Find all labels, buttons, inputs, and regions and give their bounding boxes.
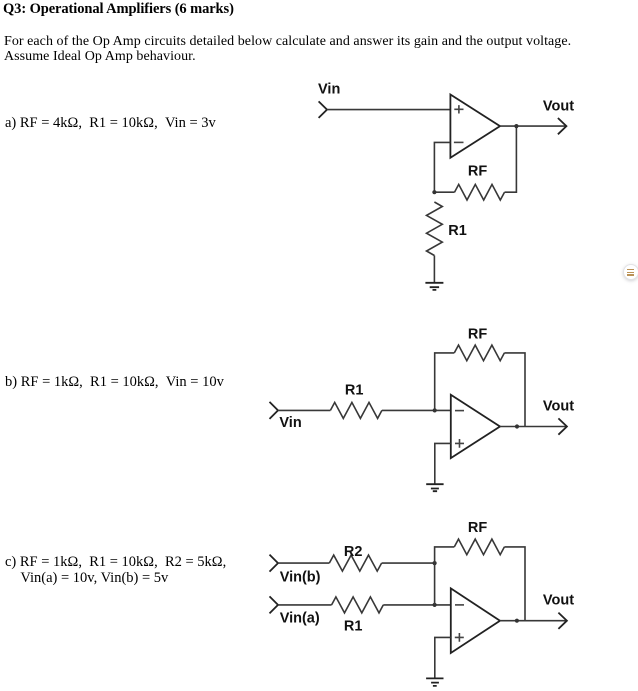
svg-text:R1: R1 <box>345 382 364 398</box>
svg-text:R2: R2 <box>344 544 363 560</box>
svg-text:Vout: Vout <box>543 98 574 114</box>
svg-text:R1: R1 <box>448 223 467 239</box>
svg-text:Vin(a): Vin(a) <box>280 610 320 626</box>
svg-text:Vin: Vin <box>279 415 301 431</box>
svg-text:Vin(b): Vin(b) <box>280 569 321 585</box>
svg-text:RF: RF <box>468 520 487 536</box>
svg-text:RF: RF <box>468 164 487 180</box>
svg-text:R1: R1 <box>344 619 363 635</box>
svg-text:Vout: Vout <box>543 592 574 608</box>
svg-text:RF: RF <box>468 326 487 342</box>
svg-text:Vout: Vout <box>543 398 574 414</box>
svg-text:Vin: Vin <box>318 82 340 98</box>
